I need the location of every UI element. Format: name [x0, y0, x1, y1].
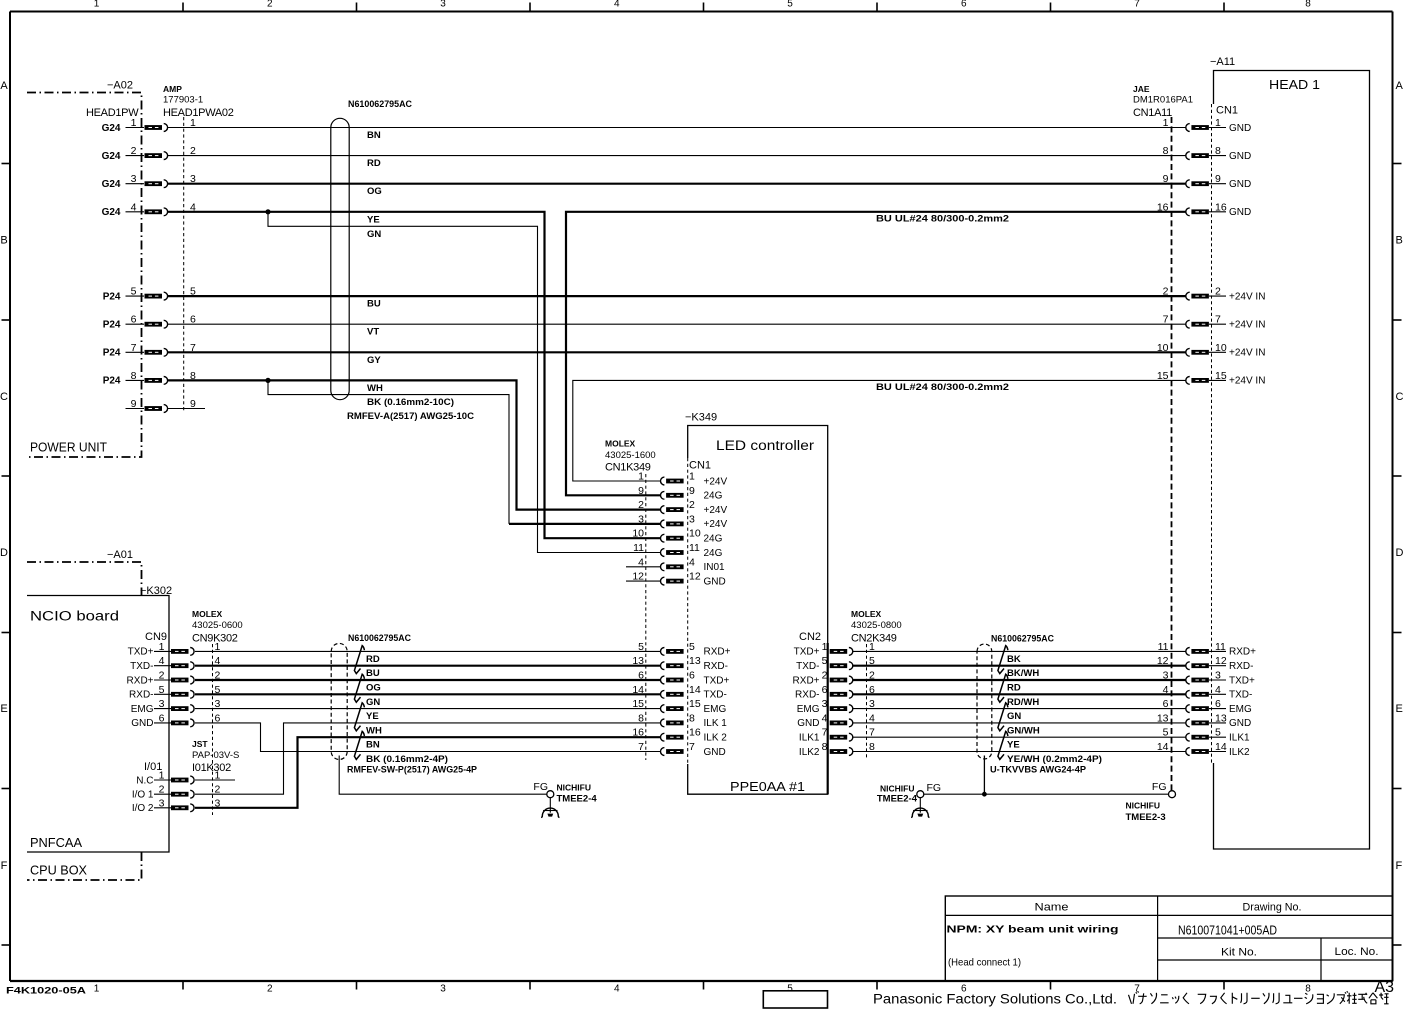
svg-text:BN: BN: [366, 740, 380, 751]
svg-text:1: 1: [94, 984, 100, 995]
wire GY P24-7 to CN1A11-10: [168, 351, 1186, 353]
svg-text:WH: WH: [366, 725, 382, 736]
svg-text:2: 2: [267, 0, 273, 9]
svg-text:D: D: [0, 547, 8, 559]
svg-text:−K349: −K349: [685, 412, 717, 424]
svg-text:6: 6: [638, 670, 644, 682]
svg-text:BU: BU: [367, 299, 381, 310]
svg-text:3: 3: [131, 173, 137, 185]
svg-text:BU: BU: [366, 668, 380, 679]
stub wire CN1K349-4 IN01: [626, 566, 661, 568]
svg-text:9: 9: [638, 485, 644, 497]
svg-text:I01K302: I01K302: [192, 762, 231, 774]
junction node P24-8: [265, 378, 270, 383]
twisted pair mark 3 right cable: [998, 703, 1008, 731]
svg-text:RXD+: RXD+: [127, 675, 154, 686]
svg-text:2: 2: [822, 670, 828, 682]
svg-text:F4K1020-05A: F4K1020-05A: [6, 986, 86, 997]
svg-text:7: 7: [638, 741, 644, 753]
svg-text:JAE: JAE: [1133, 84, 1150, 94]
svg-text:I/O 1: I/O 1: [132, 790, 154, 801]
svg-text:YE: YE: [367, 214, 380, 225]
cable shield to FG junction: [983, 756, 985, 795]
svg-text:NPM: XY beam unit wiring: NPM: XY beam unit wiring: [947, 924, 1119, 936]
svg-text:A3: A3: [1375, 979, 1395, 996]
svg-text:GND: GND: [1229, 179, 1251, 190]
svg-text:11: 11: [1215, 641, 1226, 653]
svg-text:P24: P24: [103, 320, 121, 331]
svg-text:2: 2: [1163, 286, 1169, 298]
svg-text:G24: G24: [102, 151, 121, 162]
svg-text:14: 14: [632, 684, 644, 696]
FG bus wire TMEE2-4 to TMEE2-3: [924, 793, 1169, 795]
twisted pair mark 4 left cable: [354, 731, 364, 759]
svg-text:43025-1600: 43025-1600: [605, 450, 656, 461]
svg-text:PNFCAA: PNFCAA: [30, 835, 82, 850]
svg-text:FG: FG: [533, 781, 548, 793]
svg-text:RXD-: RXD-: [1229, 661, 1253, 672]
wire GN CN2K349 to CN1A11: [853, 708, 1186, 710]
svg-text:G24: G24: [102, 179, 121, 190]
svg-text:F: F: [1, 860, 8, 872]
svg-text:TMEE2-3: TMEE2-3: [1126, 812, 1166, 823]
wire OG CN9 to CN1K349: [195, 679, 661, 681]
svg-text:7: 7: [131, 342, 137, 354]
svg-text:TXD+: TXD+: [704, 675, 730, 686]
svg-text:1: 1: [159, 770, 165, 782]
svg-text:2: 2: [159, 784, 165, 796]
wire OG G24-3 to CN1A11-9: [168, 183, 1186, 185]
svg-text:4: 4: [1215, 684, 1221, 696]
wire BU CN1A11-15 to CN1K349-1 (UL#24): [573, 380, 1186, 481]
svg-text:5: 5: [131, 286, 137, 298]
svg-text:8: 8: [1305, 984, 1311, 995]
svg-text:5: 5: [1215, 727, 1221, 739]
svg-text:2: 2: [159, 670, 165, 682]
svg-text:2: 2: [131, 145, 137, 157]
svg-text:GN: GN: [366, 697, 380, 708]
twisted pair mark 2 left cable: [354, 674, 364, 702]
svg-text:6: 6: [131, 314, 137, 326]
svg-text:GN: GN: [367, 229, 381, 240]
svg-text:2: 2: [1215, 286, 1221, 298]
svg-text:I/O 2: I/O 2: [132, 803, 154, 814]
wire YE CN2K349 to CN1A11: [853, 736, 1186, 738]
svg-text:RD: RD: [366, 654, 380, 665]
svg-text:8: 8: [689, 712, 695, 724]
svg-text:BK (0.16mm2-10C): BK (0.16mm2-10C): [367, 397, 454, 408]
svg-text:GY: GY: [367, 355, 381, 366]
enclosure -A02 POWER UNIT: [27, 80, 142, 458]
svg-text:2: 2: [689, 499, 695, 511]
svg-text:CN1: CN1: [1216, 105, 1238, 117]
wire YE CN9 to CN1K349: [195, 708, 661, 710]
svg-text:ILK2: ILK2: [1229, 747, 1250, 758]
wire WH I/O1 to CN1K349-8 ILK1: [195, 723, 661, 794]
svg-text:3: 3: [822, 698, 828, 710]
svg-text:+24V: +24V: [704, 519, 728, 530]
svg-text:E: E: [1396, 703, 1403, 715]
svg-text:4: 4: [614, 984, 620, 995]
svg-text:+24V IN: +24V IN: [1229, 291, 1265, 302]
connector CN1K349 (MOLEX 43025-1600): [605, 439, 727, 761]
svg-text:43025-0600: 43025-0600: [192, 620, 243, 631]
svg-text:1: 1: [159, 641, 165, 653]
svg-text:RXD-: RXD-: [129, 690, 153, 701]
svg-text:1: 1: [638, 471, 644, 483]
svg-text:16: 16: [1157, 201, 1169, 213]
svg-text:12: 12: [1215, 655, 1227, 667]
svg-text:1: 1: [1163, 117, 1169, 129]
connector HEAD1PW pins: [102, 117, 205, 412]
twisted pair mark 1 left cable: [354, 646, 364, 674]
svg-text:8: 8: [1163, 145, 1169, 157]
junction node G24-4: [265, 209, 270, 214]
svg-text:AMP: AMP: [163, 84, 182, 94]
svg-text:BN: BN: [367, 130, 381, 141]
svg-text:EMG: EMG: [797, 704, 820, 715]
wire YE/WH CN2K349 to CN1A11: [853, 751, 1186, 753]
svg-text:16: 16: [1215, 201, 1227, 213]
svg-text:10: 10: [689, 528, 701, 540]
svg-text:D: D: [1396, 547, 1403, 559]
wire BN I/O2 to CN1K349-16 ILK2: [195, 737, 661, 808]
svg-text:1: 1: [131, 117, 137, 129]
svg-text:TXD+: TXD+: [128, 647, 154, 658]
svg-text:4: 4: [689, 556, 695, 568]
svg-text:7: 7: [1134, 984, 1140, 995]
svg-text:TXD-: TXD-: [1229, 690, 1252, 701]
wire YE G24-4 to CN1K349-10: [168, 212, 661, 538]
svg-text:TMEE2-4: TMEE2-4: [877, 794, 918, 805]
revision box: [763, 991, 827, 1008]
svg-text:GND: GND: [131, 718, 153, 729]
ground FG NICHIFU TMEE2-4 (middle): [877, 782, 941, 818]
svg-text:8: 8: [1215, 145, 1221, 157]
svg-text:16: 16: [689, 727, 701, 739]
svg-text:PPE0AA #1: PPE0AA #1: [730, 779, 805, 794]
svg-text:Name: Name: [1035, 902, 1069, 914]
svg-text:6: 6: [159, 712, 165, 724]
connector CN9K302 (MOLEX 43025-0600): [127, 609, 243, 815]
svg-text:GND: GND: [1229, 123, 1251, 134]
wire BK to CN1K349-3: [268, 380, 661, 524]
twisted pair mark 3 left cable: [354, 703, 364, 731]
svg-text:15: 15: [1215, 370, 1227, 382]
connector CN1A11 upper pins 1,8,9,16 GND: [1157, 117, 1251, 218]
svg-text:3: 3: [440, 984, 446, 995]
svg-text:Drawing No.: Drawing No.: [1243, 902, 1302, 914]
svg-text:(Head connect 1): (Head connect 1): [948, 957, 1021, 969]
svg-text:14: 14: [1215, 741, 1227, 753]
wire GN/WH CN2K349 to CN1A11: [853, 722, 1186, 724]
svg-text:43025-0800: 43025-0800: [851, 620, 902, 631]
wire BK CN2K349 to CN1A11: [853, 650, 1186, 652]
svg-text:DM1R016PA1: DM1R016PA1: [1133, 95, 1193, 106]
svg-text:P24: P24: [103, 291, 121, 302]
svg-text:B: B: [0, 235, 7, 247]
svg-text:N610062795AC: N610062795AC: [348, 99, 412, 110]
svg-text:GND: GND: [1229, 207, 1251, 218]
svg-text:8: 8: [638, 712, 644, 724]
svg-text:CPU BOX: CPU BOX: [30, 863, 87, 878]
svg-text:15: 15: [632, 698, 644, 710]
svg-text:TMEE2-4: TMEE2-4: [557, 794, 598, 805]
svg-text:3: 3: [440, 0, 446, 9]
wire BN G24-1 to CN1A11-1: [168, 127, 1186, 129]
svg-text:HEAD1PWA02: HEAD1PWA02: [163, 107, 234, 119]
svg-text:+24V IN: +24V IN: [1229, 348, 1265, 359]
svg-text:VT: VT: [367, 327, 379, 338]
svg-text:4: 4: [822, 712, 828, 724]
svg-text:8: 8: [131, 370, 137, 382]
board -K302 NCIO board (PNFCAA): [27, 585, 172, 852]
svg-text:7: 7: [689, 741, 695, 753]
svg-text:Panasonic Factory Solutions Co: Panasonic Factory Solutions Co.,Ltd.: [873, 992, 1117, 1008]
svg-text:1: 1: [1215, 117, 1221, 129]
svg-text:3: 3: [159, 698, 165, 710]
svg-text:YE: YE: [366, 711, 379, 722]
svg-text:E: E: [0, 703, 7, 715]
svg-text:TXD-: TXD-: [796, 661, 819, 672]
svg-text:9: 9: [689, 485, 695, 497]
svg-text:MOLEX: MOLEX: [192, 609, 223, 619]
svg-text:IN01: IN01: [704, 562, 726, 573]
svg-text:G24: G24: [102, 123, 121, 134]
svg-text:RXD-: RXD-: [795, 690, 819, 701]
svg-text:8: 8: [1305, 0, 1311, 9]
svg-text:2: 2: [638, 499, 644, 511]
svg-text:JST: JST: [192, 739, 208, 749]
svg-text:−A02: −A02: [107, 80, 133, 92]
svg-text:LED controller: LED controller: [716, 438, 815, 453]
wire VT P24-6 to CN1A11-7: [168, 323, 1186, 325]
svg-text:3: 3: [638, 513, 644, 525]
svg-text:BK/WH: BK/WH: [1007, 668, 1039, 679]
svg-text:+24V IN: +24V IN: [1229, 320, 1265, 331]
twisted pair mark 1 right cable: [998, 646, 1008, 674]
footer: [6, 979, 1394, 1008]
svg-text:BK: BK: [1007, 654, 1021, 665]
svg-text:177903-1: 177903-1: [163, 95, 203, 106]
svg-text:TXD+: TXD+: [1229, 675, 1255, 686]
svg-text:PAP-03V-S: PAP-03V-S: [192, 750, 239, 761]
svg-text:−A11: −A11: [1210, 56, 1235, 68]
svg-text:N610062795AC: N610062795AC: [991, 634, 1054, 645]
svg-text:WH: WH: [367, 383, 383, 394]
svg-text:14: 14: [689, 684, 701, 696]
svg-text:6: 6: [689, 670, 695, 682]
svg-text:OG: OG: [366, 683, 381, 694]
svg-text:11: 11: [689, 542, 700, 554]
svg-text:+24V: +24V: [704, 505, 728, 516]
svg-text:RXD+: RXD+: [793, 675, 820, 686]
svg-text:−A01: −A01: [107, 549, 133, 561]
svg-text:RXD+: RXD+: [704, 647, 731, 658]
svg-text:GN: GN: [1007, 711, 1021, 722]
wire BU CN1A11-16 to CN1K349-9 (UL#24): [566, 212, 1186, 496]
svg-text:+24V IN: +24V IN: [1229, 376, 1265, 387]
svg-text:TXD-: TXD-: [130, 661, 153, 672]
svg-text:A: A: [1396, 80, 1403, 92]
svg-text:MOLEX: MOLEX: [851, 609, 882, 619]
svg-text:24G: 24G: [704, 548, 723, 559]
connector CN1K349 lower pins (RXD/TXD/EMG/ILK): [632, 641, 730, 758]
svg-text:RD/WH: RD/WH: [1007, 697, 1039, 708]
svg-text:Loc. No.: Loc. No.: [1335, 946, 1379, 958]
svg-text:2: 2: [267, 984, 273, 995]
wire BU P24-5 to CN1A11-2: [168, 295, 1186, 297]
connector HEAD1PWA02 (AMP 177903-1): [163, 84, 234, 411]
wire GN to CN1K349-11: [268, 212, 661, 553]
svg-text:TXD+: TXD+: [794, 647, 820, 658]
connector CN1A11 pins 2,7,10,15 +24V IN: [1157, 286, 1266, 387]
svg-text:FG: FG: [1152, 781, 1167, 793]
wire RD/WH CN2K349 to CN1A11: [853, 693, 1186, 695]
svg-text:A: A: [0, 80, 8, 92]
svg-text:13: 13: [632, 655, 644, 667]
svg-text:+24V: +24V: [704, 476, 728, 487]
svg-text:7: 7: [1134, 0, 1140, 9]
svg-text:4: 4: [159, 655, 165, 667]
cable N610062795AC (10-core RMFEV): [331, 99, 474, 422]
svg-text:ILK 1: ILK 1: [704, 718, 728, 729]
svg-text:NICHIFU: NICHIFU: [880, 784, 914, 794]
footer japanese company name (vector): [1129, 991, 1389, 1004]
svg-text:5: 5: [822, 655, 828, 667]
svg-text:CN2: CN2: [799, 631, 821, 643]
svg-text:YE: YE: [1007, 740, 1020, 751]
svg-text:Kit No.: Kit No.: [1221, 947, 1257, 959]
svg-text:HEAD 1: HEAD 1: [1269, 77, 1320, 92]
svg-text:B: B: [1396, 235, 1403, 247]
svg-text:10: 10: [1215, 342, 1227, 354]
svg-text:P24: P24: [103, 376, 121, 387]
wire RD G24-2 to CN1A11-8: [168, 155, 1186, 157]
svg-text:4: 4: [614, 0, 620, 9]
svg-text:G24: G24: [102, 207, 121, 218]
svg-text:EMG: EMG: [131, 704, 154, 715]
svg-text:9: 9: [1163, 173, 1169, 185]
svg-text:BU UL#24 80/300-0.2mm2: BU UL#24 80/300-0.2mm2: [876, 213, 1009, 224]
svg-text:5: 5: [787, 984, 793, 995]
svg-text:MOLEX: MOLEX: [605, 439, 636, 449]
svg-text:24G: 24G: [704, 491, 723, 502]
svg-text:BK (0.16mm2-4P): BK (0.16mm2-4P): [366, 754, 448, 765]
svg-text:NCIO board: NCIO board: [30, 609, 119, 624]
svg-text:TXD-: TXD-: [704, 690, 727, 701]
svg-text:3: 3: [1215, 670, 1221, 682]
svg-text:ILK 2: ILK 2: [704, 733, 728, 744]
wire RD CN9 to CN1K349: [195, 650, 661, 652]
cable shield to FG TMEE2-4 left: [339, 756, 547, 795]
svg-text:EMG: EMG: [704, 704, 727, 715]
junction node FG shield: [982, 792, 987, 797]
svg-text:RMFEV-SW-P(2517) AWG25-4P: RMFEV-SW-P(2517) AWG25-4P: [347, 765, 478, 776]
head unit -A11 HEAD 1: [1210, 56, 1370, 849]
wire BK/WH CN2K349 to CN1A11: [853, 665, 1186, 667]
wire BU CN9 to CN1K349: [195, 665, 661, 667]
svg-text:P24: P24: [103, 348, 121, 359]
svg-text:7: 7: [822, 727, 828, 739]
svg-text:RD: RD: [367, 158, 381, 169]
svg-text:GND: GND: [704, 576, 726, 587]
svg-text:15: 15: [1157, 370, 1169, 382]
connector CN2K349 (MOLEX 43025-0800): [793, 609, 902, 760]
svg-text:ILK2: ILK2: [799, 747, 820, 758]
svg-text:OG: OG: [367, 186, 382, 197]
svg-text:13: 13: [1215, 712, 1227, 724]
svg-text:24G: 24G: [704, 534, 723, 545]
svg-text:U-TKVVBS AWG24-4P: U-TKVVBS AWG24-4P: [990, 765, 1087, 776]
svg-text:GND: GND: [704, 747, 726, 758]
enclosure -A01 CPU BOX: [27, 549, 142, 880]
wire GN CN9 to CN1K349: [195, 693, 661, 695]
svg-text:4: 4: [131, 201, 137, 213]
svg-text:YE/WH (0.2mm2-4P): YE/WH (0.2mm2-4P): [1007, 754, 1102, 765]
svg-text:N610071041+005AD: N610071041+005AD: [1178, 924, 1277, 938]
svg-text:EMG: EMG: [1229, 704, 1252, 715]
svg-text:RXD+: RXD+: [1229, 647, 1256, 658]
svg-text:8: 8: [822, 741, 828, 753]
twisted pair mark 4 right cable: [998, 731, 1008, 759]
svg-text:5: 5: [638, 641, 644, 653]
svg-text:ILK1: ILK1: [799, 733, 820, 744]
svg-text:C: C: [1396, 391, 1403, 403]
ground FG NICHIFU TMEE2-3 (right): [1126, 781, 1176, 823]
connector I01K302 (JST PAP-03V-S): [132, 739, 240, 814]
svg-text:GN/WH: GN/WH: [1007, 725, 1040, 736]
wire BK CN9-GND to CN1K349-7 GND: [195, 723, 661, 752]
svg-text:5: 5: [159, 684, 165, 696]
stub wire CN1K349-12 GND: [626, 580, 661, 582]
svg-text:6: 6: [1215, 698, 1221, 710]
connector CN1A11 lower pins 11,12,3,4,6,13,5,14: [1157, 641, 1256, 758]
svg-text:5: 5: [787, 0, 793, 9]
svg-text:12: 12: [689, 571, 701, 583]
title block: [945, 896, 1392, 981]
svg-text:N610062795AC: N610062795AC: [348, 633, 411, 644]
svg-text:3: 3: [689, 513, 695, 525]
svg-text:10: 10: [632, 528, 644, 540]
svg-text:GND: GND: [1229, 151, 1251, 162]
svg-text:RD: RD: [1007, 683, 1021, 694]
ground FG NICHIFU TMEE2-4 (left): [533, 781, 597, 818]
svg-text:C: C: [0, 391, 8, 403]
svg-text:7: 7: [1163, 314, 1169, 326]
svg-text:16: 16: [632, 727, 644, 739]
svg-text:POWER UNIT: POWER UNIT: [30, 440, 107, 455]
svg-text:FG: FG: [927, 782, 942, 794]
cable N610062795AC (U-TKVVBS 4P): [977, 634, 1102, 776]
svg-text:11: 11: [633, 542, 644, 554]
svg-text:NICHIFU: NICHIFU: [1126, 801, 1160, 811]
svg-text:9: 9: [1215, 173, 1221, 185]
svg-text:1: 1: [689, 471, 695, 483]
wire RD CN2K349 to CN1A11: [853, 679, 1186, 681]
svg-text:1: 1: [822, 641, 828, 653]
svg-text:10: 10: [1157, 342, 1169, 354]
svg-text:5: 5: [689, 641, 695, 653]
svg-text:RXD-: RXD-: [704, 661, 728, 672]
svg-text:F: F: [1396, 860, 1403, 872]
svg-text:1: 1: [94, 0, 100, 9]
svg-text:RMFEV-A(2517) AWG25-10C: RMFEV-A(2517) AWG25-10C: [347, 411, 474, 422]
svg-text:7: 7: [1215, 314, 1221, 326]
svg-text:GND: GND: [1229, 718, 1251, 729]
twisted pair mark 2 right cable: [998, 674, 1008, 702]
svg-text:6: 6: [822, 684, 828, 696]
